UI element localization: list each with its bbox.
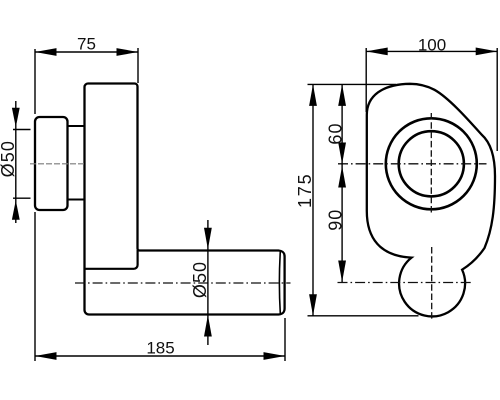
dim 175: dimension line: [312, 85, 314, 316]
dim 185: dimension line: [35, 355, 285, 357]
right view: bottom circle vertical centerline: [431, 247, 433, 321]
dim Ø50 inlet: top tick: [13, 129, 31, 131]
dim 185: left arrow: [35, 352, 57, 360]
right view: main circle horizontal centerline: [338, 163, 487, 165]
dim 75: left arrow: [35, 48, 57, 56]
left view: L-shaped body and pipe outline: [85, 84, 285, 315]
dim Ø50 inlet: bottom arrow: [12, 200, 20, 220]
dim 75: dimension line: [35, 51, 138, 53]
right view: inner circle: [399, 131, 464, 196]
right view: body outline: [367, 84, 495, 317]
dim Ø50 pipe: dimension line: [207, 220, 209, 345]
left view: pipe end chamfer line: [278, 252, 281, 314]
right view: outer circle: [386, 118, 477, 209]
dim 175: top tick: [308, 83, 397, 85]
dim 90: top arrow: [338, 166, 346, 188]
dim 185: right extension line: [284, 318, 286, 361]
dim 75: right extension line: [137, 48, 139, 83]
svg-text:175: 175: [295, 173, 315, 208]
dim 100: right extension line: [496, 48, 498, 151]
svg-text:Ø50: Ø50: [0, 140, 18, 177]
left view: neck bottom wire: [68, 199, 85, 201]
left view: fitting centerline: [30, 163, 86, 165]
dim Ø50 pipe: top arrow: [204, 228, 212, 250]
dim 60/90: shared dimension line: [341, 85, 343, 282]
right view: main circle vertical centerline: [430, 113, 432, 214]
left view: neck top wire: [68, 125, 85, 127]
svg-text:75: 75: [77, 35, 96, 54]
dim Ø50 inlet: bottom tick: [13, 197, 31, 199]
dim 75: left extension line: [34, 49, 36, 114]
dim 175: bottom arrow: [309, 294, 317, 316]
dim 185: left extension line: [34, 212, 36, 361]
dim 175: top arrow: [309, 84, 317, 106]
dim 100: dimension line: [366, 50, 497, 52]
dim 60: top arrow: [338, 84, 346, 106]
left view: inlet fitting flange: [35, 117, 68, 210]
dim 100: right arrow: [476, 48, 498, 56]
svg-text:60: 60: [325, 122, 345, 144]
left view: pipe centerline: [75, 282, 291, 284]
dim 90: bottom arrow: [338, 261, 346, 283]
dim Ø50 inlet: top arrow: [12, 108, 20, 128]
svg-text:Ø50: Ø50: [190, 261, 210, 298]
dim Ø50 inlet: dimension line: [15, 101, 17, 223]
dim 175: bottom tick: [308, 315, 419, 317]
dim 100: left extension line: [365, 48, 367, 112]
right view: bottom circle horizontal centerline: [338, 282, 472, 284]
dim 60: bottom arrow: [338, 143, 346, 165]
dim 75: right arrow: [117, 48, 139, 56]
svg-text:185: 185: [146, 339, 174, 358]
left view: body/pipe intersection step wire: [85, 250, 138, 269]
dim 100: left arrow: [366, 48, 388, 56]
dim Ø50 pipe: bottom arrow: [204, 315, 212, 337]
dim 185: right arrow: [264, 352, 286, 360]
svg-text:100: 100: [418, 35, 446, 54]
svg-text:90: 90: [325, 209, 345, 231]
